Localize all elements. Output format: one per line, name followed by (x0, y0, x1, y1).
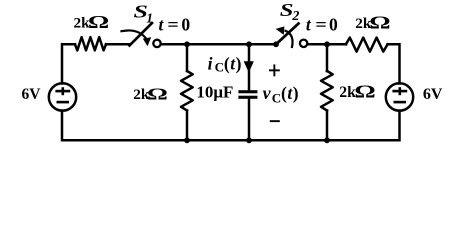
svg-text:(t): (t) (224, 53, 242, 73)
capacitor C bottom plate (238, 96, 257, 99)
svg-text:10μF: 10μF (196, 83, 233, 102)
svg-text:=: = (315, 15, 326, 35)
switch S2 arrowhead (276, 26, 285, 35)
minus sign of vC(t) (270, 120, 280, 122)
svg-text:t: t (159, 15, 165, 35)
svg-text:Ω: Ω (88, 12, 109, 32)
switch S2 terminal circle (300, 40, 307, 47)
switch S1 closing arc (122, 30, 147, 38)
svg-text:0: 0 (329, 15, 338, 35)
switch S1 lever (130, 23, 153, 46)
svg-text:C: C (272, 90, 281, 105)
node dot bottom of capacitor (246, 137, 252, 143)
svg-text:Ω: Ω (369, 13, 390, 33)
svg-text:=: = (167, 15, 178, 35)
switch S2 lever (276, 24, 299, 45)
node dot top of capacitor (246, 41, 252, 47)
voltage source V2 6V circle (386, 83, 413, 110)
resistor R2 2kOhm vertical left branch (181, 44, 193, 140)
wire R3 to top-right corner and right vertical top (388, 44, 400, 83)
capacitor C branch wire bottom (248, 99, 251, 141)
svg-text:2: 2 (291, 9, 299, 24)
svg-text:(t): (t) (281, 83, 299, 103)
switch S1 terminal circle (153, 40, 160, 47)
V1 plus sign (55, 90, 70, 93)
svg-text:t: t (306, 15, 312, 35)
svg-text:v: v (263, 83, 272, 103)
V1 minus sign (57, 101, 70, 104)
wire left vertical bottom and bottom-left corner (62, 111, 187, 141)
node dot bottom of R2 (184, 137, 190, 143)
svg-text:1: 1 (146, 10, 153, 25)
node dot bottom of R4 (324, 137, 330, 143)
wire bottom middle (187, 139, 327, 142)
svg-text:0: 0 (181, 15, 190, 35)
svg-text:Ω: Ω (354, 82, 375, 102)
capacitor current arrowhead (244, 61, 254, 72)
voltage source V1 6V circle (49, 83, 76, 110)
svg-text:S: S (280, 1, 294, 21)
wire S2 terminal toward R3 (307, 43, 346, 46)
wire right vertical bottom and bottom-right corner (327, 111, 400, 141)
wire R1 to switch S1 pivot (106, 43, 130, 46)
node dot top of R2 (184, 41, 190, 47)
plus sign of vC(t) (269, 69, 280, 71)
svg-text:6V: 6V (423, 86, 443, 103)
node dot top of R4 (324, 41, 330, 47)
V2 plus sign (392, 90, 407, 93)
resistor R4 2kOhm vertical right branch (321, 44, 333, 140)
svg-text:C: C (215, 59, 224, 74)
V2 minus sign (394, 101, 407, 104)
wire S1 terminal to S2 pivot (161, 43, 276, 46)
switch S1 arrowhead (143, 37, 151, 46)
capacitor C top plate (238, 90, 257, 93)
switch S2 opening arc (286, 31, 293, 47)
resistor R3 2kOhm top-right zigzag (346, 38, 388, 52)
wire top-left corner and left vertical top (62, 44, 75, 83)
capacitor C branch wire top with current arrow line (248, 44, 251, 90)
node dot S2 pivot (273, 41, 279, 47)
resistor R1 2kOhm top-left zigzag (75, 37, 106, 50)
svg-text:Ω: Ω (147, 84, 168, 103)
svg-text:i: i (208, 53, 213, 73)
svg-text:6V: 6V (22, 86, 42, 103)
